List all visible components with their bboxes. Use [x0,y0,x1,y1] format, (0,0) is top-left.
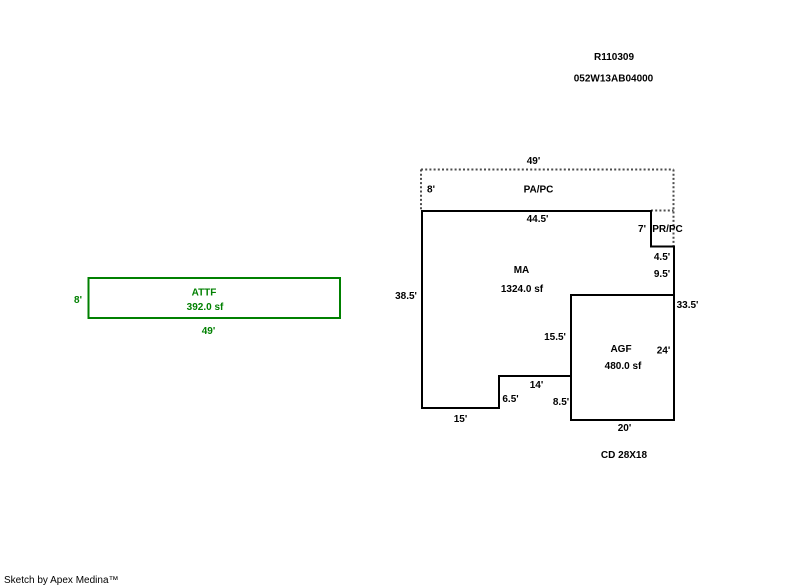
svg-text:1324.0 sf: 1324.0 sf [501,284,544,295]
svg-text:7': 7' [638,224,646,235]
svg-text:R110309: R110309 [594,52,634,63]
svg-text:MA: MA [514,265,530,276]
svg-text:49': 49' [527,156,541,167]
svg-text:392.0 sf: 392.0 sf [187,302,224,313]
svg-text:480.0 sf: 480.0 sf [605,361,642,372]
svg-text:6.5': 6.5' [502,394,518,405]
svg-text:Sketch by Apex Medina™: Sketch by Apex Medina™ [4,575,119,586]
svg-text:38.5': 38.5' [395,291,417,302]
svg-text:PA/PC: PA/PC [524,185,554,196]
svg-text:49': 49' [202,326,216,337]
svg-text:14': 14' [530,380,544,391]
main area MA outline [422,211,674,408]
svg-text:9.5': 9.5' [654,269,670,280]
svg-text:CD 28X18: CD 28X18 [601,450,648,461]
svg-text:8': 8' [74,295,82,306]
svg-text:15': 15' [454,414,468,425]
svg-text:052W13AB04000: 052W13AB04000 [574,74,654,85]
svg-text:33.5': 33.5' [677,300,699,311]
svg-text:4.5': 4.5' [654,252,670,263]
svg-text:PR/PC: PR/PC [652,224,683,235]
porch PA/PC dashed outline [421,170,674,247]
svg-text:ATTF: ATTF [192,288,217,299]
svg-text:44.5': 44.5' [527,214,549,225]
svg-text:20': 20' [618,423,632,434]
svg-text:24': 24' [657,346,671,357]
svg-text:15.5': 15.5' [544,332,566,343]
svg-text:8': 8' [427,185,435,196]
detached structure ATTF green outline [89,278,341,318]
svg-text:8.5': 8.5' [553,397,569,408]
svg-text:AGF: AGF [610,344,631,355]
garage AGF outline [571,295,674,420]
